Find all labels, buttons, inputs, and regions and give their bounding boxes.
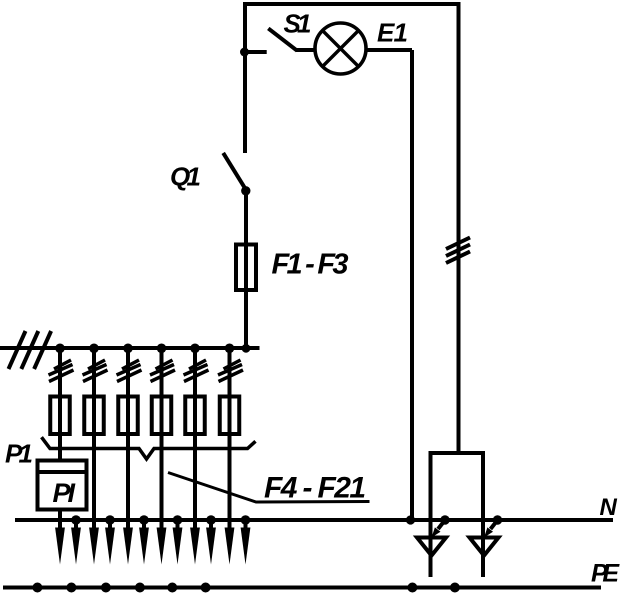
svg-text:E1: E1 bbox=[377, 18, 408, 48]
svg-text:S1: S1 bbox=[284, 9, 312, 39]
svg-text:N: N bbox=[600, 494, 618, 521]
svg-text:F4 - F21: F4 - F21 bbox=[264, 472, 366, 505]
svg-text:F1 - F3: F1 - F3 bbox=[272, 249, 349, 281]
svg-text:P1: P1 bbox=[5, 439, 33, 469]
svg-text:I: I bbox=[68, 478, 76, 508]
svg-text:PE: PE bbox=[591, 560, 620, 588]
svg-text:Q1: Q1 bbox=[170, 162, 201, 192]
